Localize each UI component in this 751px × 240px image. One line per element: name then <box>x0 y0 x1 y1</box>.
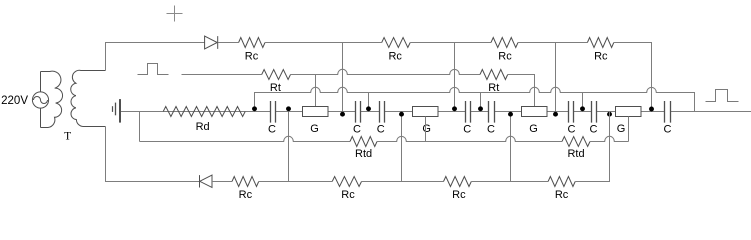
svg-text:Rc: Rc <box>594 51 608 63</box>
wire vertical node to bottom rail 1 <box>288 112 290 182</box>
transformer T primary winding <box>41 71 63 127</box>
resistor Rc (top 1) <box>239 38 265 48</box>
svg-text:C: C <box>377 124 385 136</box>
resistor Rt 2 <box>480 70 508 80</box>
resistor Rc (top 2) <box>382 38 411 48</box>
resistor Rtd 2 <box>562 137 590 147</box>
svg-text:G: G <box>310 123 319 135</box>
svg-text:C: C <box>664 124 672 136</box>
capacitor C1 <box>271 101 276 123</box>
wire row B (output bus with hops) <box>255 87 695 111</box>
capacitor C3 <box>380 101 385 123</box>
wire row B stub 3 down to main row <box>582 93 584 112</box>
svg-text:220V: 220V <box>1 95 28 107</box>
wire gap G2 stub down to Rtd row <box>425 117 427 142</box>
svg-text:Rd: Rd <box>196 121 210 133</box>
battery plate short <box>112 106 114 112</box>
wire row A seg2 (hops) <box>291 69 481 74</box>
svg-text:Rc: Rc <box>388 51 402 63</box>
resistor Rtd 1 <box>350 137 377 147</box>
diode D2 (bottom, pointing left) <box>200 175 213 187</box>
svg-text:G: G <box>422 123 431 135</box>
capacitor C2 <box>356 101 361 123</box>
wire top rail seg4 <box>410 42 491 44</box>
wire Rtd row seg3 (hop) <box>590 136 629 141</box>
spark gap G3 <box>522 107 548 117</box>
wire top rail left segment <box>106 43 205 71</box>
wire top rail seg5 <box>518 42 587 44</box>
wire row A stub down to gap G1 trigger <box>315 75 317 107</box>
capacitor C4 <box>466 101 471 123</box>
spark gap G1 <box>303 107 329 117</box>
capacitor C7 <box>592 101 597 123</box>
svg-text:Rc: Rc <box>341 189 355 201</box>
resistor Rc (top 4) <box>587 38 613 48</box>
capacitor C5 <box>489 101 495 123</box>
resistor Rd <box>163 107 245 117</box>
wire node-A drop to Rtd row <box>139 112 141 142</box>
svg-text:Rc: Rc <box>498 51 512 63</box>
resistor Rc (top 3) <box>491 38 518 48</box>
svg-text:G: G <box>617 123 626 135</box>
plus marker <box>167 6 183 22</box>
wire top rail right end down to main row <box>614 43 652 112</box>
svg-text:Rc: Rc <box>239 189 253 201</box>
spark gap G2 <box>413 107 439 117</box>
wire top rail seg3 <box>265 42 382 44</box>
wire bottom rail seg3 <box>259 181 333 183</box>
wire vertical node to bottom rail 3 <box>510 112 512 182</box>
wire vertical node to bottom rail 2 <box>401 112 403 182</box>
pulse output symbol (right) <box>706 90 739 102</box>
svg-text:T: T <box>64 131 71 143</box>
AC source 220V <box>32 92 48 108</box>
wire row B stub 1 down to main row <box>368 93 370 112</box>
junction dots on main row <box>252 106 257 111</box>
svg-text:C: C <box>463 124 471 136</box>
pulse input symbol (left) <box>138 64 169 75</box>
spark gap G4 <box>616 107 642 117</box>
diode D1 (top, pointing right) <box>205 36 218 49</box>
wire vertical top-rail to node 2 <box>454 43 456 112</box>
wire primary left side <box>40 72 42 128</box>
wire vertical top-rail to node 3 <box>555 43 557 112</box>
svg-text:Rc: Rc <box>452 189 466 201</box>
wire bottom rail seg4 <box>362 181 444 183</box>
resistor Rc (bottom 3) <box>444 177 472 187</box>
wire Rtd row seg1 (hop) <box>140 136 351 141</box>
wire main row segments <box>121 111 751 113</box>
battery plate tall <box>119 99 121 123</box>
svg-text:Rc: Rc <box>245 51 259 63</box>
capacitor C6 <box>569 101 574 123</box>
svg-text:C: C <box>487 124 495 136</box>
resistor Rc (bottom 1) <box>232 177 259 187</box>
resistor Rc (bottom 4) <box>548 177 575 187</box>
wire vertical top-rail to node 1 <box>342 43 344 112</box>
wire row A end down to gap G3 trigger <box>508 75 535 107</box>
wire bottom rail left <box>106 127 200 182</box>
svg-text:C: C <box>568 124 576 136</box>
svg-text:Rtd: Rtd <box>355 148 372 160</box>
svg-text:Rtd: Rtd <box>567 148 584 160</box>
wire bottom rail right end up to main row <box>575 112 609 182</box>
resistor Rc (bottom 2) <box>332 177 361 187</box>
wire row A seg1 <box>182 74 262 76</box>
resistor Rt 1 <box>262 70 291 80</box>
wire row B stub 2 down to main row <box>480 93 482 112</box>
svg-text:C: C <box>590 124 598 136</box>
transformer T secondary winding <box>71 70 106 126</box>
svg-text:C: C <box>353 124 361 136</box>
battery plate mid <box>115 103 117 116</box>
wire bottom rail seg5 <box>471 181 548 183</box>
wire top rail seg2 <box>218 42 239 44</box>
svg-text:Rc: Rc <box>555 189 569 201</box>
svg-text:G: G <box>529 123 538 135</box>
wire Rtd row seg2 (hops) <box>377 136 562 141</box>
capacitor C8 <box>665 101 671 123</box>
wire gap G4 stub down (Rtd row end) <box>628 117 630 142</box>
wire bottom rail seg2 <box>212 181 232 183</box>
svg-text:C: C <box>268 124 276 136</box>
